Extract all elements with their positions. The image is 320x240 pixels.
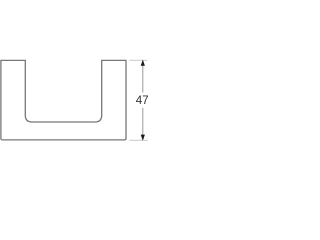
- dimension line lower segment: [142, 108, 144, 140]
- extension line top: [129, 59, 147, 61]
- extension line bottom: [129, 139, 148, 141]
- arrowhead up: [141, 60, 145, 66]
- U-profile outline: [1, 60, 126, 139]
- dimension line upper segment: [142, 60, 144, 92]
- arrowhead down: [141, 135, 145, 141]
- svg-text:47: 47: [136, 94, 149, 107]
